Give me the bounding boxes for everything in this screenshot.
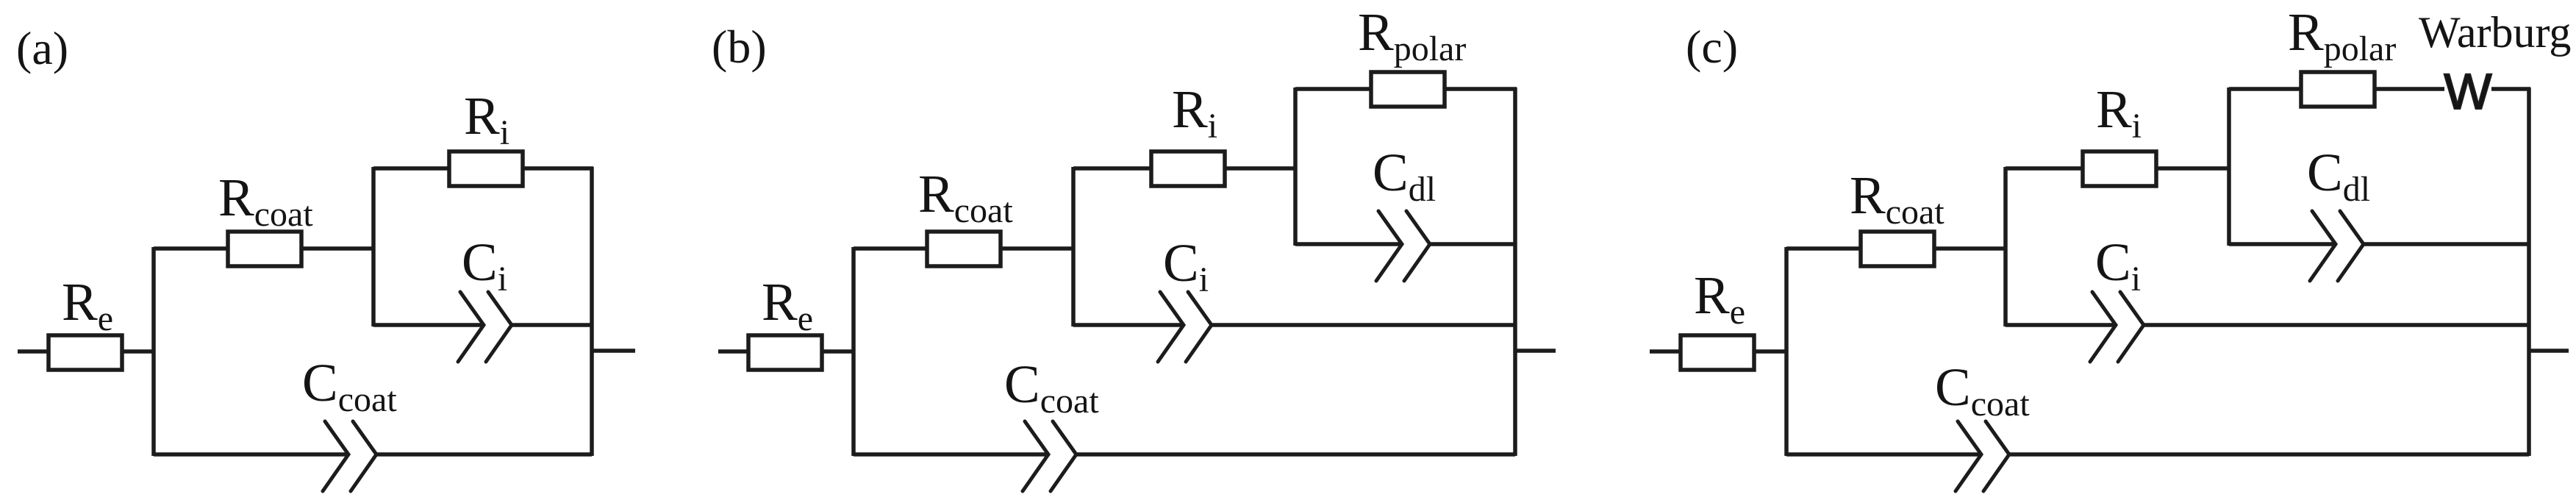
right rail vertical (b) xyxy=(1513,87,1517,456)
node 2 vertical (a) xyxy=(371,167,376,326)
wire: node 2 to R_i (c) xyxy=(2006,166,2083,171)
wire: node 3 to CPE C_dl (b) xyxy=(1295,242,1402,246)
resistor R_e (c) xyxy=(1681,335,1754,370)
capacitor CPE C_dl (c) xyxy=(2310,211,2336,281)
wire: R_e to node 1 (b) xyxy=(822,349,855,354)
resistor R_coat (b) xyxy=(927,232,1001,266)
wire: CPE C_dl to right rail (c) xyxy=(2364,242,2529,246)
wire: node 2 to CPE C_i (a) xyxy=(373,323,484,327)
wire: output lead circuit (b) xyxy=(1515,349,1556,353)
capacitor CPE C_coat (a) xyxy=(323,421,348,491)
node 2 vertical (b) xyxy=(1071,167,1076,326)
wire: R_coat to node 2 (b) xyxy=(1001,246,1075,251)
svg-text:Warburg: Warburg xyxy=(2419,8,2571,57)
wire: CPE C_coat to right rail (a) xyxy=(376,452,592,457)
wire: R_e to node 1 (c) xyxy=(1754,349,1788,354)
wire: Warburg W to right rail (c) xyxy=(2491,87,2530,91)
capacitor CPE C_dl (b) xyxy=(1376,211,1402,281)
wire: node 3 to CPE C_dl (c) xyxy=(2229,242,2336,246)
node 3 vertical (b) xyxy=(1293,87,1298,246)
resistor R_e (b) xyxy=(748,335,822,370)
svg-text:(a): (a) xyxy=(16,22,68,74)
wire: node 2 to R_i (b) xyxy=(1073,166,1151,171)
node 2 vertical (c) xyxy=(2003,167,2008,326)
right rail vertical (c) xyxy=(2527,87,2531,456)
wire: node 1 to R_coat (b) xyxy=(854,246,927,251)
wire: input lead circuit (c) xyxy=(1650,349,1681,354)
wire: node 1 to R_coat (c) xyxy=(1786,246,1861,251)
wire: R_e to node 1 (a) xyxy=(122,349,155,354)
wire: R_polar to right rail (b) xyxy=(1445,87,1517,91)
resistor R_i (c) xyxy=(2083,151,2156,186)
wire: output lead circuit (a) xyxy=(592,349,635,353)
wire: CPE C_i to right rail (a) xyxy=(512,323,592,327)
node 1 vertical (c) xyxy=(1784,247,1789,456)
resistor R_e (a) xyxy=(49,335,122,370)
wire: node 1 to CPE C_coat (c) xyxy=(1786,452,1981,457)
resistor R_i (a) xyxy=(449,151,523,186)
svg-text:(c): (c) xyxy=(1686,21,1738,73)
wire: R_coat to node 2 (c) xyxy=(1934,246,2007,251)
wire: output lead circuit (c) xyxy=(2529,349,2569,353)
right rail vertical (a) xyxy=(590,167,594,456)
wire: CPE C_i to right rail (c) xyxy=(2144,323,2529,327)
resistor R_coat (c) xyxy=(1861,232,1934,266)
capacitor CPE C_coat (c) xyxy=(1956,421,1981,491)
node 3 vertical (c) xyxy=(2227,87,2231,246)
wire: R_i to node 3 (a) xyxy=(523,166,593,171)
wire: node 3 to R_polar (b) xyxy=(1295,87,1371,91)
wire: CPE C_coat to right rail (c) xyxy=(2009,452,2529,457)
wire: node 2 to CPE C_i (c) xyxy=(2006,323,2116,327)
wire: CPE C_dl to right rail (b) xyxy=(1430,242,1515,246)
wire: R_coat to node 2 (a) xyxy=(301,246,375,251)
wire: R_i to node 3 (b) xyxy=(1225,166,1297,171)
capacitor CPE C_i (c) xyxy=(2090,292,2116,362)
wire: CPE C_i to right rail (b) xyxy=(1212,323,1515,327)
capacitor CPE C_i (b) xyxy=(1158,292,1184,362)
svg-text:(b): (b) xyxy=(712,21,767,73)
wire: node 2 to R_i (a) xyxy=(373,166,449,171)
wire: input lead circuit (b) xyxy=(718,349,748,354)
resistor R_polar (b) xyxy=(1371,72,1445,107)
resistor R_polar (c) xyxy=(2301,72,2375,107)
node 1 vertical (b) xyxy=(851,247,856,456)
wire: node 1 to CPE C_coat (b) xyxy=(854,452,1048,457)
wire: node 2 to CPE C_i (b) xyxy=(1073,323,1184,327)
wire: R_i to node 3 (c) xyxy=(2156,166,2230,171)
resistor R_coat (a) xyxy=(228,232,301,266)
svg-text:W: W xyxy=(2444,63,2491,120)
capacitor CPE C_i (a) xyxy=(458,292,484,362)
resistor R_i (b) xyxy=(1151,151,1225,186)
capacitor CPE C_coat (b) xyxy=(1023,421,1048,491)
wire: node 1 to R_coat (a) xyxy=(154,246,228,251)
wire: node 3 to R_polar (c) xyxy=(2229,87,2301,91)
wire: input lead circuit (a) xyxy=(18,349,49,354)
node 1 vertical (a) xyxy=(151,247,156,456)
wire: node 1 to CPE C_coat (a) xyxy=(154,452,348,457)
wire: R_polar to Warburg W (c) xyxy=(2375,87,2444,91)
wire: CPE C_coat to right rail (b) xyxy=(1076,452,1515,457)
